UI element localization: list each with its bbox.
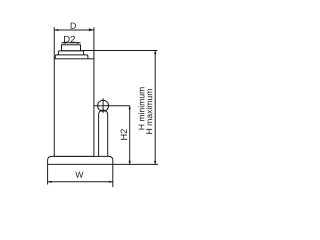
label H maximum (146, 89, 152, 134)
socket cross horizontal / H2 extension line (94, 105, 130, 107)
D arrow left (54, 29, 58, 31)
H max top extension line (81, 50, 158, 52)
saddle top block (62, 45, 81, 51)
label W (75, 172, 83, 178)
label D2 (64, 36, 75, 43)
saddle middle step (58, 51, 83, 55)
W extension line right (112, 164, 114, 187)
label H minimum (138, 87, 144, 129)
socket cross vertical (102, 98, 104, 113)
H max top arrow (154, 51, 156, 55)
base plate (48, 156, 113, 164)
H min-max dimension line (154, 51, 156, 165)
D2 arrow left (62, 42, 66, 44)
W dimension line (48, 181, 113, 183)
D2 arrow right (77, 42, 81, 44)
base bottom line / H extension line (48, 163, 158, 165)
W arrow left (48, 181, 52, 183)
W arrow right (109, 181, 113, 183)
D dimension line (54, 29, 94, 31)
D extension line right (93, 27, 95, 59)
label H2 (121, 129, 127, 140)
H2 dimension line (129, 106, 131, 165)
pump plunger right line (107, 115, 109, 157)
H2 top arrow (129, 106, 131, 110)
jack body (54, 59, 94, 157)
H max bottom arrow (154, 161, 156, 165)
pump plunger left line (99, 110, 108, 156)
saddle collar (55, 55, 88, 59)
D arrow right (89, 28, 94, 31)
H2 bottom arrow (129, 161, 131, 165)
D2 dimension line (62, 42, 81, 44)
D extension line left (53, 27, 55, 59)
W extension line left (47, 164, 49, 184)
label D (71, 23, 76, 29)
handle socket circle (98, 100, 109, 111)
